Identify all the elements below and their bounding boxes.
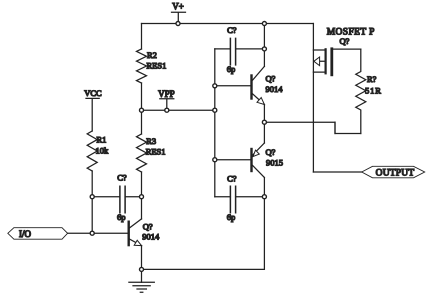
- wire R2 bottom to VPP node: [141, 83, 143, 110]
- svg-text:V+: V+: [172, 2, 184, 12]
- wire R3 bottom to collector: [141, 172, 143, 219]
- svg-text:MOSFET P: MOSFET P: [327, 28, 375, 38]
- node cap-top right: [262, 47, 266, 51]
- svg-text:C?: C?: [227, 174, 237, 184]
- power V+: [172, 2, 186, 24]
- wire output: [313, 171, 361, 173]
- wire resistor step up: [334, 122, 336, 133]
- node base wire Q9015: [213, 158, 217, 162]
- svg-text:R2: R2: [147, 50, 157, 60]
- node bottom rail / ground: [140, 267, 144, 271]
- wire mosfet left column: [312, 24, 314, 173]
- svg-text:6p: 6p: [117, 212, 126, 222]
- resistor R1 10k: [87, 131, 109, 171]
- svg-text:R1: R1: [97, 135, 107, 145]
- wire bottom rail: [142, 197, 265, 270]
- svg-text:Q?: Q?: [143, 222, 153, 232]
- wire emitter node to gate resistor step: [264, 122, 360, 133]
- wire R1 bottom: [91, 171, 93, 233]
- node top rail / transistor column: [262, 22, 266, 26]
- svg-text:9015: 9015: [266, 158, 283, 168]
- node I/O column: [90, 231, 94, 235]
- capacitor C right 6p: [215, 174, 264, 223]
- ground: [129, 282, 154, 292]
- wire base Q9015: [215, 159, 252, 161]
- node cap-left left: [90, 195, 94, 199]
- wire top rail: [142, 23, 314, 25]
- svg-text:Q?: Q?: [266, 74, 276, 84]
- wire column emitter segment: [263, 105, 265, 144]
- node cap-left right: [140, 195, 144, 199]
- svg-text:VPP: VPP: [158, 89, 175, 99]
- wire ground stub: [141, 269, 143, 282]
- svg-text:6p: 6p: [227, 212, 236, 222]
- transistor Q? 9014 bottom: [129, 219, 160, 246]
- power VPP: [158, 89, 175, 110]
- svg-text:RES1: RES1: [146, 147, 166, 157]
- resistor R? 51R: [356, 49, 382, 133]
- port OUTPUT: [362, 166, 425, 178]
- node VPP right: [213, 108, 217, 112]
- svg-text:R?: R?: [367, 74, 377, 84]
- resistor R3 RES1: [137, 134, 166, 172]
- svg-text:9014: 9014: [266, 84, 284, 94]
- wire column collector bottom: [263, 178, 265, 197]
- svg-text:C?: C?: [227, 25, 237, 35]
- node VPP left: [140, 108, 144, 112]
- svg-text:9014: 9014: [142, 232, 160, 242]
- power VCC: [84, 88, 102, 131]
- node cap-right right: [262, 195, 266, 199]
- wire I/O to base: [68, 232, 129, 234]
- transistor Q? 9014 top: [252, 66, 284, 104]
- capacitor C left 6p: [92, 173, 141, 223]
- resistor R2 RES1: [137, 49, 167, 83]
- svg-text:OUTPUT: OUTPUT: [376, 169, 415, 179]
- wire left column upper lead: [141, 24, 143, 50]
- wire base Q9014 top: [215, 85, 252, 87]
- port I/O: [8, 228, 68, 240]
- capacitor C top 6p: [215, 25, 265, 74]
- wire VPP rail: [142, 109, 215, 111]
- wire middle column x214.8: [214, 49, 216, 197]
- svg-text:I/O: I/O: [19, 229, 31, 239]
- svg-text:R3: R3: [146, 136, 156, 146]
- svg-text:C?: C?: [117, 173, 127, 183]
- svg-text:51R: 51R: [365, 86, 382, 96]
- svg-text:VCC: VCC: [84, 88, 102, 98]
- svg-text:Q?: Q?: [340, 36, 350, 46]
- node base wire Q9014 top: [213, 84, 217, 88]
- wire column collector top: [263, 24, 265, 67]
- mosfet Q? MOSFET P: [313, 28, 374, 75]
- svg-text:RES1: RES1: [147, 61, 167, 71]
- svg-text:Q?: Q?: [266, 147, 276, 157]
- node emitter junction: [262, 120, 266, 124]
- wire emitter to bottom rail: [141, 246, 143, 270]
- svg-text:6p: 6p: [227, 64, 236, 74]
- node V+ / top rail: [176, 22, 180, 26]
- svg-text:10k: 10k: [96, 146, 110, 156]
- transistor Q? 9015: [252, 143, 284, 178]
- node VPP stub: [165, 108, 169, 112]
- wire left column mid lead: [141, 110, 143, 134]
